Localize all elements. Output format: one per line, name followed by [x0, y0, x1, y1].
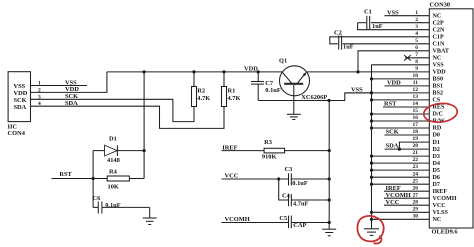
svg-text:D4: D4 — [433, 161, 440, 167]
wire net RST — [52, 171, 108, 178]
capacitor C6 0.1uF — [93, 195, 150, 218]
junction on VDD rail at D1/R4 branch — [143, 70, 146, 73]
svg-text:BS2: BS2 — [433, 91, 444, 97]
resistor R4 10K — [107, 169, 144, 191]
junction bus pin29 — [370, 211, 373, 214]
wire pin24 to VSS bus — [372, 176, 430, 178]
junction on VDD rail at R1 — [222, 70, 225, 73]
wire pin10 to VSS bus — [372, 78, 430, 80]
svg-text:Q1: Q1 — [279, 58, 287, 65]
junction bus pin10 — [370, 77, 373, 80]
svg-text:VCC: VCC — [386, 199, 400, 206]
wire net IREF — [222, 144, 265, 151]
wire pin28 net VCC label — [384, 199, 429, 206]
svg-text:IREF: IREF — [222, 144, 237, 151]
svg-text:CAP: CAP — [293, 222, 306, 229]
wire pin13 to VSS bus — [372, 99, 430, 101]
svg-text:D1: D1 — [109, 135, 117, 142]
svg-text:30: 30 — [413, 213, 419, 219]
svg-text:27: 27 — [413, 192, 419, 198]
ground at C6 — [143, 218, 157, 225]
junction VCC branch — [277, 177, 280, 180]
wire pin25 to VSS bus — [372, 183, 430, 185]
CON4 pin 4 wire, net SDA — [31, 100, 225, 128]
connector CON30 body (OLED9.6) — [429, 2, 473, 236]
svg-text:10: 10 — [413, 73, 419, 79]
wire VSS bus vertical — [371, 65, 373, 229]
svg-text:R3: R3 — [264, 139, 272, 146]
wire VDD drop to D1 cathode / R4 — [143, 72, 145, 179]
svg-text:3: 3 — [415, 24, 418, 30]
diode D1 4148 — [93, 135, 144, 164]
svg-text:RST: RST — [384, 101, 397, 108]
wire pin22 to VSS bus — [372, 162, 430, 164]
svg-text:VCOMH: VCOMH — [225, 216, 250, 223]
capacitor C4 4.7uF — [279, 179, 330, 208]
wire pin18 net SCK label — [385, 129, 430, 136]
svg-text:VLSS: VLSS — [433, 210, 449, 216]
svg-text:1: 1 — [415, 10, 418, 16]
svg-text:C4: C4 — [282, 192, 291, 199]
svg-text:SDA: SDA — [386, 143, 399, 150]
wire pin6 VBAT riser to VDD line — [358, 51, 429, 72]
wire net VCOMH — [222, 216, 289, 223]
svg-text:R1: R1 — [228, 87, 236, 94]
svg-text:BS1: BS1 — [433, 84, 444, 90]
svg-text:0.1uF: 0.1uF — [265, 87, 281, 94]
svg-text:20: 20 — [413, 143, 419, 149]
svg-text:D/C: D/C — [433, 112, 444, 118]
svg-text:VDD: VDD — [244, 66, 258, 73]
wire pin15 to VSS bus — [372, 113, 430, 115]
wire pin17 to VSS bus — [372, 127, 430, 129]
svg-text:22: 22 — [413, 157, 419, 163]
svg-text:D7: D7 — [433, 182, 440, 188]
svg-text:VCC: VCC — [433, 203, 446, 209]
svg-text:RD: RD — [433, 126, 442, 132]
svg-text:5: 5 — [415, 38, 418, 44]
wire pin14 net RST label — [383, 101, 429, 108]
svg-text:IREF: IREF — [433, 189, 448, 195]
red annotation circle around ground — [357, 216, 383, 244]
junction RST node — [92, 177, 95, 180]
svg-text:VDD: VDD — [433, 70, 447, 76]
wire cap ground bus — [328, 101, 330, 230]
svg-text:SCK: SCK — [14, 97, 27, 104]
svg-text:24: 24 — [413, 171, 419, 177]
junction C3 to bus — [328, 177, 331, 180]
svg-text:1uF: 1uF — [372, 23, 383, 30]
svg-text:0.1uF: 0.1uF — [292, 180, 308, 187]
svg-text:C1P: C1P — [433, 35, 444, 41]
svg-text:14: 14 — [413, 101, 419, 107]
svg-text:SCK: SCK — [386, 129, 399, 136]
capacitor C2 1uF between pins 4-5 — [330, 30, 430, 51]
svg-text:17: 17 — [413, 122, 419, 128]
junction VBAT riser — [356, 70, 359, 73]
wire pin23 to VSS bus — [372, 169, 430, 171]
svg-text:4148: 4148 — [107, 157, 120, 164]
svg-text:4.7K: 4.7K — [197, 95, 210, 102]
svg-text:2: 2 — [415, 17, 418, 23]
svg-text:C1: C1 — [364, 9, 372, 16]
svg-text:VSS: VSS — [433, 63, 445, 69]
wire pin19 tie to pin20 — [399, 142, 429, 149]
svg-text:VCOMH: VCOMH — [433, 196, 457, 202]
svg-text:C7: C7 — [265, 80, 274, 87]
junction bus pin22 — [370, 162, 373, 165]
CON4 pin 3 wire, net SCK — [31, 93, 195, 122]
wire pin27 net VCOMH label — [384, 192, 429, 199]
transistor/regulator Q1 XC6206P — [279, 58, 327, 115]
svg-text:RST: RST — [59, 171, 72, 178]
junction bus pin16 — [370, 119, 373, 122]
svg-text:19: 19 — [413, 136, 419, 142]
svg-text:VSS: VSS — [387, 9, 399, 16]
junction bus pin15 — [370, 112, 373, 115]
junction VSS to cap bus — [327, 99, 330, 102]
svg-text:VCC: VCC — [225, 173, 239, 180]
wire pin16 to VSS bus — [372, 120, 430, 122]
svg-text:VDD: VDD — [387, 80, 401, 87]
CON30 pin stubs, numbers and pin labels — [413, 10, 457, 223]
svg-text:C2: C2 — [334, 30, 342, 37]
svg-text:NC: NC — [433, 217, 442, 223]
svg-text:4.7uF: 4.7uF — [293, 201, 309, 208]
wire Q1 output to CON30 pin 9 — [307, 71, 429, 73]
capacitor C1 1uF between pins 2-3 — [358, 9, 430, 30]
junction bus pin13 — [370, 98, 373, 101]
junction bus pin30 — [370, 218, 373, 221]
svg-text:SDA: SDA — [65, 100, 78, 107]
svg-text:25: 25 — [413, 178, 419, 184]
svg-text:D1: D1 — [433, 140, 440, 146]
capacitor C7 0.1uF — [251, 72, 281, 101]
red annotation ellipse around RES and D/C pins — [423, 102, 458, 124]
svg-text:D3: D3 — [433, 154, 440, 160]
svg-text:9: 9 — [415, 66, 418, 72]
pin7 NC with no-connect X — [404, 55, 429, 61]
junction SDA tie — [398, 148, 401, 151]
junction bus pin23 — [370, 169, 373, 172]
svg-text:NC: NC — [433, 13, 442, 19]
resistor R3 910K — [262, 139, 329, 161]
junction on VDD rail at C7 — [257, 70, 260, 73]
svg-text:8: 8 — [415, 59, 418, 65]
junction D1 cathode — [143, 149, 146, 152]
capacitor C3 0.1uF — [285, 166, 330, 187]
svg-text:C1N: C1N — [433, 42, 445, 48]
wire pin26 net IREF label — [384, 185, 429, 192]
svg-text:1: 1 — [38, 81, 41, 87]
wire VDD rail — [107, 71, 283, 73]
junction bus pin25 — [370, 183, 373, 186]
svg-text:VDD: VDD — [14, 90, 28, 97]
wire pin11 net VDD label — [385, 80, 430, 87]
svg-text:2: 2 — [38, 87, 41, 93]
svg-text:C2N: C2N — [433, 27, 445, 33]
resistor R2 4.7K — [192, 72, 211, 107]
svg-text:4.7K: 4.7K — [228, 95, 241, 102]
wire net VCC — [222, 173, 289, 180]
svg-text:NC: NC — [433, 56, 442, 62]
svg-text:3: 3 — [38, 94, 41, 100]
wire pin29 to VSS bus — [372, 211, 430, 213]
junction on VDD rail at R2 — [192, 70, 195, 73]
svg-text:6: 6 — [415, 45, 418, 51]
junction bus pin12 — [370, 91, 373, 94]
svg-text:4: 4 — [38, 101, 41, 107]
junction C4 to bus — [328, 198, 331, 201]
wire pin12 to VSS step — [345, 92, 430, 94]
junction bus pin24 — [370, 176, 373, 179]
svg-text:VCOMH: VCOMH — [386, 192, 411, 199]
wire pin30 to VSS bus — [372, 218, 430, 220]
svg-text:VBAT: VBAT — [433, 49, 449, 55]
junction R3 to bus — [328, 149, 331, 152]
svg-text:1uF: 1uF — [343, 43, 354, 50]
svg-text:D0: D0 — [433, 133, 440, 139]
ground at VSS bus bottom — [364, 229, 379, 236]
svg-text:C2P: C2P — [433, 20, 444, 26]
svg-text:29: 29 — [413, 206, 419, 212]
svg-text:4: 4 — [415, 31, 418, 37]
svg-text:CON4: CON4 — [8, 130, 26, 137]
wire RST node vertical — [92, 151, 94, 208]
svg-text:IREF: IREF — [386, 185, 401, 192]
wire pin8 VSS from bus top — [372, 64, 430, 66]
svg-text:13: 13 — [413, 94, 419, 100]
svg-text:15: 15 — [413, 108, 419, 114]
junction bus pin17 — [370, 126, 373, 129]
svg-text:0.1uF: 0.1uF — [105, 202, 121, 209]
CON4 pin 1 wire, net VSS — [31, 79, 88, 86]
junction bus pin21 — [370, 155, 373, 158]
svg-text:R2: R2 — [197, 87, 205, 94]
svg-text:D5: D5 — [433, 168, 440, 174]
svg-text:26: 26 — [413, 185, 419, 191]
connector CON4 body (IIC) — [8, 72, 31, 137]
svg-text:7: 7 — [415, 52, 418, 58]
wire pin21 to VSS bus — [372, 155, 430, 157]
svg-text:10K: 10K — [108, 184, 119, 191]
svg-text:BS0: BS0 — [433, 77, 444, 83]
wire pin1 net VSS — [385, 9, 430, 16]
svg-text:12: 12 — [413, 87, 419, 93]
wire pin20 net SDA label — [385, 143, 430, 150]
ground at Q1 — [287, 114, 301, 119]
svg-text:16: 16 — [413, 115, 419, 121]
svg-text:R4: R4 — [109, 169, 118, 176]
svg-text:28: 28 — [413, 199, 419, 205]
svg-text:23: 23 — [413, 164, 419, 170]
svg-text:910K: 910K — [262, 154, 277, 161]
svg-text:18: 18 — [413, 129, 419, 135]
CON4 pin 2 wire, net VDD — [31, 72, 107, 94]
svg-text:C3: C3 — [285, 166, 293, 173]
svg-text:RES: RES — [433, 105, 445, 111]
junction C5 to bus — [328, 221, 331, 224]
svg-text:CON30: CON30 — [430, 2, 451, 9]
svg-text:11: 11 — [413, 80, 418, 86]
svg-text:OLED9.6: OLED9.6 — [432, 229, 459, 236]
svg-text:D2: D2 — [433, 147, 440, 153]
svg-text:VSS: VSS — [14, 83, 26, 90]
svg-text:C5: C5 — [279, 215, 287, 222]
svg-text:D6: D6 — [433, 175, 440, 181]
ground at cap bus — [322, 229, 336, 236]
svg-text:21: 21 — [413, 150, 419, 156]
wire VSS bottom run — [258, 93, 371, 101]
svg-text:SDA: SDA — [14, 104, 27, 111]
capacitor C5 CAP — [279, 215, 329, 229]
resistor R1 4.7K — [222, 72, 241, 107]
svg-text:C6: C6 — [93, 195, 102, 202]
